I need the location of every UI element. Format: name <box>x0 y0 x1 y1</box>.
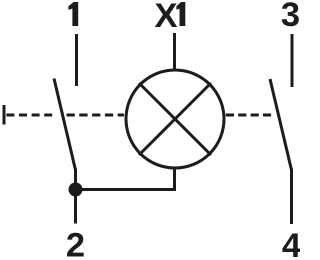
pin label 1 <box>68 2 78 26</box>
dashed actuator linkage (right) <box>226 114 271 117</box>
lamp X1 body <box>126 70 224 168</box>
svg-text:X: X <box>154 0 177 35</box>
wire: lamp bottom lead <box>173 167 176 191</box>
wire: terminal 1 lead <box>75 34 78 86</box>
lamp X1 cross stroke 1 <box>139 83 211 155</box>
wire: lamp top lead <box>173 33 176 70</box>
wire: horizontal from junction to lamp <box>76 188 177 191</box>
wire: blade bend to terminal 4 lead <box>290 169 293 225</box>
wire: blade bend to terminal 2 lead <box>74 169 77 224</box>
svg-text:4: 4 <box>282 227 300 260</box>
svg-text:3: 3 <box>281 0 300 34</box>
dashed actuator linkage (left, before blade) <box>6 114 56 117</box>
junction dot node <box>69 183 83 197</box>
switch blade S1 (contact 1-2) <box>54 79 76 171</box>
dashed actuator linkage (left, after blade) <box>67 114 125 117</box>
actuator end tick <box>3 105 6 125</box>
lamp X1 cross stroke 2 <box>139 83 211 155</box>
svg-text:2: 2 <box>66 227 85 260</box>
switch blade S2 (contact 3-4) <box>270 79 292 170</box>
wire: terminal 3 lead <box>291 34 294 87</box>
